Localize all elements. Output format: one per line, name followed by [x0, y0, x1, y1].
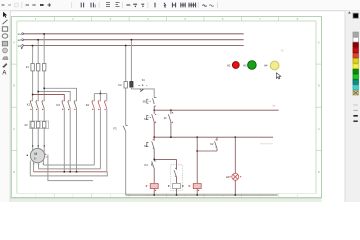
loop wire outer [30, 161, 107, 176]
loop wire star bridge (red) [34, 171, 107, 173]
branch to K3 pole 3 [32, 94, 64, 102]
loop wire motor W2 to K2 pole1 [43, 164, 94, 166]
lamp H1 rail [234, 137, 236, 195]
indicator lamp red H2 [227, 62, 239, 69]
K2 self hold contact [197, 137, 217, 151]
control fuse F4 (dark) [130, 79, 145, 87]
svg-text:L3: L3 [18, 44, 21, 48]
coil K2 [189, 184, 202, 195]
wire drop from L2 [37, 39, 39, 101]
svg-text:L2: L2 [18, 38, 21, 42]
lamp H1 [226, 173, 242, 180]
timer contact K4 on K1 rail [145, 161, 157, 183]
svg-text:K1: K1 [27, 103, 31, 107]
K2 wires down [94, 109, 107, 172]
control wire to S0 [131, 85, 154, 97]
contactor K2 contacts [86, 94, 107, 111]
contactor K2 top bus [94, 90, 107, 94]
svg-text:M: M [34, 152, 37, 156]
K1 aux contact [164, 110, 174, 137]
svg-text:A: A [13, 41, 15, 45]
svg-text:K3: K3 [57, 103, 61, 107]
rung 2 [153, 136, 273, 138]
contactor K3 contacts [57, 100, 77, 110]
svg-text:H2: H2 [227, 63, 231, 67]
svg-text:H1: H1 [226, 175, 230, 179]
phase line L3 [18, 44, 244, 50]
loop wire motor V2 to K2 pole2 [39, 168, 101, 170]
svg-text:B: B [318, 84, 320, 88]
K2 rung rail [196, 137, 198, 183]
svg-text:B: B [13, 84, 15, 88]
K4 dashed outline [171, 165, 183, 191]
overload NC contact F2 on control [114, 125, 128, 131]
indicator lamp green H3 [243, 61, 256, 70]
right color palette panel [345, 11, 360, 202]
phase line L2 [18, 38, 244, 42]
overload relay F1 box [25, 121, 49, 129]
K4 branch contact [174, 159, 177, 183]
top toolbar [0, 0, 360, 11]
control drop from L3 [125, 45, 127, 82]
branch to K4 [153, 159, 176, 161]
phase line L1 [18, 32, 244, 36]
bottom control bus [126, 88, 278, 196]
branch to K3 pole 1 [43, 88, 76, 102]
wire drop from L1 [43, 33, 45, 101]
svg-text:3~: 3~ [34, 157, 38, 161]
svg-text:S0: S0 [143, 99, 147, 103]
left tool sidebar [0, 11, 10, 202]
coil K4 [168, 184, 184, 195]
fuse F1 three poles [26, 64, 46, 71]
control fuse F3 [118, 82, 127, 89]
button S2 [144, 137, 154, 161]
svg-text:K4: K4 [145, 163, 149, 167]
svg-text:A: A [2, 70, 6, 76]
start button S1 [144, 110, 156, 137]
indicator lamp yellow H4 [264, 61, 279, 70]
motor bottom terminal marks [33, 163, 44, 165]
svg-text:A: A [318, 41, 320, 45]
svg-text:H4: H4 [264, 64, 268, 68]
svg-text:H3: H3 [243, 63, 247, 67]
schematic frame outer border [11, 17, 321, 198]
wire drop from L3 [32, 45, 34, 101]
K3 star wires down [64, 109, 76, 172]
motor bottom stubs [34, 160, 44, 172]
motor top terminal marks [32, 145, 45, 146]
control drop from L2 [131, 39, 133, 82]
svg-text:L1: L1 [18, 32, 21, 36]
coil K1 [146, 184, 158, 195]
page bottom edge band [11, 199, 322, 202]
branch to K3 pole 2 [37, 91, 70, 102]
svg-text:S2: S2 [144, 144, 148, 148]
svg-text:K2: K2 [210, 142, 214, 146]
rung 1 [153, 106, 278, 111]
loop wire motor aux [48, 155, 93, 181]
ghost artifacts [260, 50, 284, 144]
mouse cursor [276, 73, 281, 79]
wires overload to motor [33, 109, 45, 153]
svg-text:K2: K2 [86, 103, 90, 107]
stop button S0 [143, 98, 157, 107]
contactor K1 main contacts [27, 100, 44, 110]
svg-text:S1: S1 [144, 117, 148, 121]
motor M1 [27, 148, 48, 162]
frame reference ticks and labels [11, 17, 321, 198]
